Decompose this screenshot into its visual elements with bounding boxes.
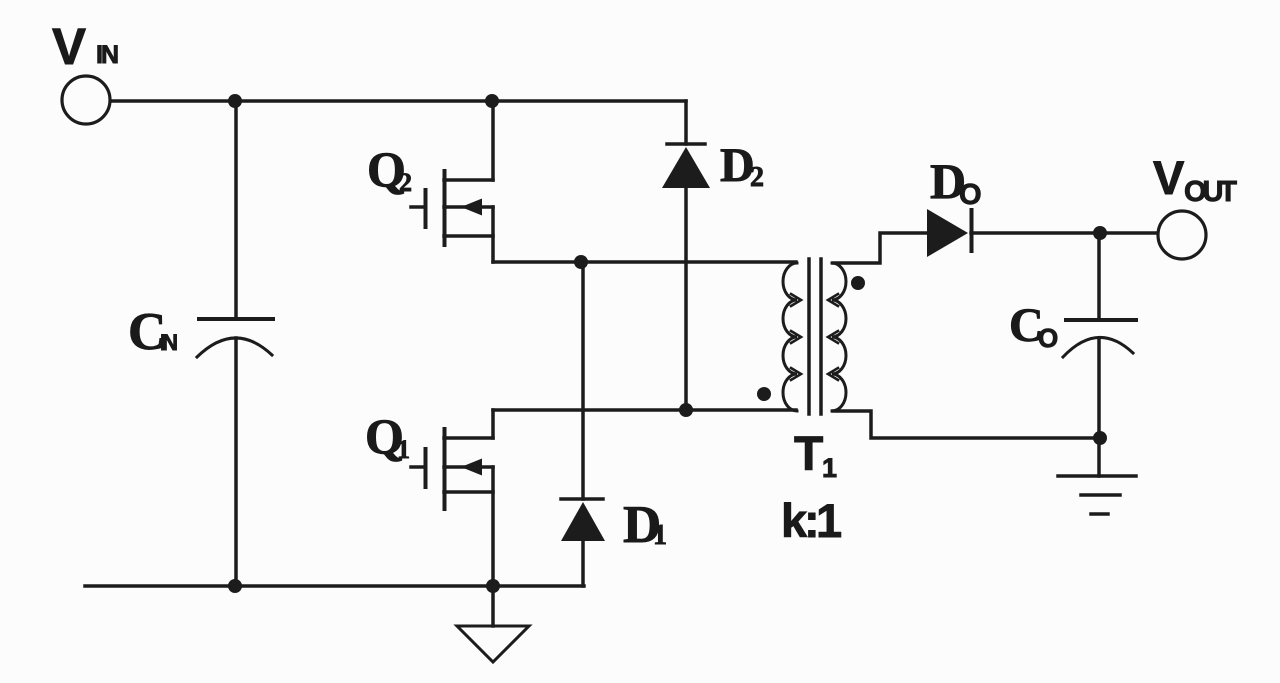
- svg-text:2: 2: [399, 168, 412, 197]
- svg-text:2: 2: [750, 162, 764, 193]
- svg-text:1: 1: [653, 520, 667, 551]
- svg-text:1: 1: [822, 453, 837, 483]
- svg-text:1: 1: [397, 435, 410, 464]
- svg-text:OUT: OUT: [1184, 176, 1237, 208]
- svg-text:O: O: [959, 179, 982, 211]
- svg-text:V: V: [1153, 151, 1185, 204]
- svg-text:V: V: [52, 18, 86, 75]
- svg-text:IN: IN: [96, 41, 119, 69]
- svg-text:T: T: [794, 428, 823, 481]
- svg-text:1: 1: [816, 494, 842, 547]
- svg-text:O: O: [1038, 323, 1058, 353]
- svg-text:IN: IN: [160, 330, 178, 355]
